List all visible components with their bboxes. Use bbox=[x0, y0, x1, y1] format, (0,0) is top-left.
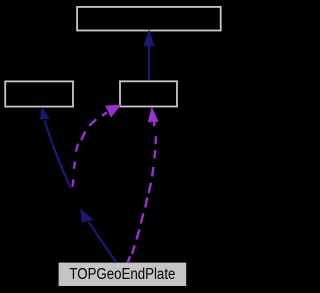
dash ix bbox=[132, 245, 135, 254]
dash viii bbox=[136, 229, 139, 239]
svg-text:TOPGeoEndPlate: TOPGeoEndPlate bbox=[69, 266, 175, 283]
dash a bbox=[89, 119, 96, 125]
node string (left box) bbox=[5, 81, 73, 106]
dash iv bbox=[152, 167, 153, 177]
dash a' bbox=[102, 112, 107, 115]
inheritance arrow upper segment: label gap to left box (solid blue curve) bbox=[45, 120, 71, 188]
usage edge m_name: dashed purple into right box bottom-left corner bbox=[73, 112, 108, 186]
inheritance arrow lower segment: bottom box to label gap (solid blue) bbox=[89, 222, 117, 262]
dash vii bbox=[141, 213, 144, 223]
node TObject (top box) bbox=[77, 7, 221, 31]
dash iii bbox=[153, 150, 156, 158]
node TOPGeoEndPlate (current class, grey box) bbox=[59, 263, 187, 286]
dash i bbox=[153, 121, 156, 126]
dash vi bbox=[145, 198, 147, 208]
dash v bbox=[149, 183, 151, 193]
arrowhead m_name bbox=[105, 105, 121, 118]
dash e bbox=[76, 144, 78, 152]
node TOPGeoBase (right box) bbox=[120, 81, 177, 106]
dash c bbox=[81, 132, 85, 141]
dash x bbox=[128, 256, 130, 263]
arrowhead m_material bbox=[148, 107, 159, 123]
dash g bbox=[71, 180, 74, 187]
dash f bbox=[74, 162, 75, 169]
usage edge m_material: dashed purple from bottom box to right box bottom bbox=[128, 121, 156, 263]
inheritance arrow: right box to top box (solid blue vertical) bbox=[148, 46, 150, 81]
dash ii bbox=[154, 136, 157, 144]
